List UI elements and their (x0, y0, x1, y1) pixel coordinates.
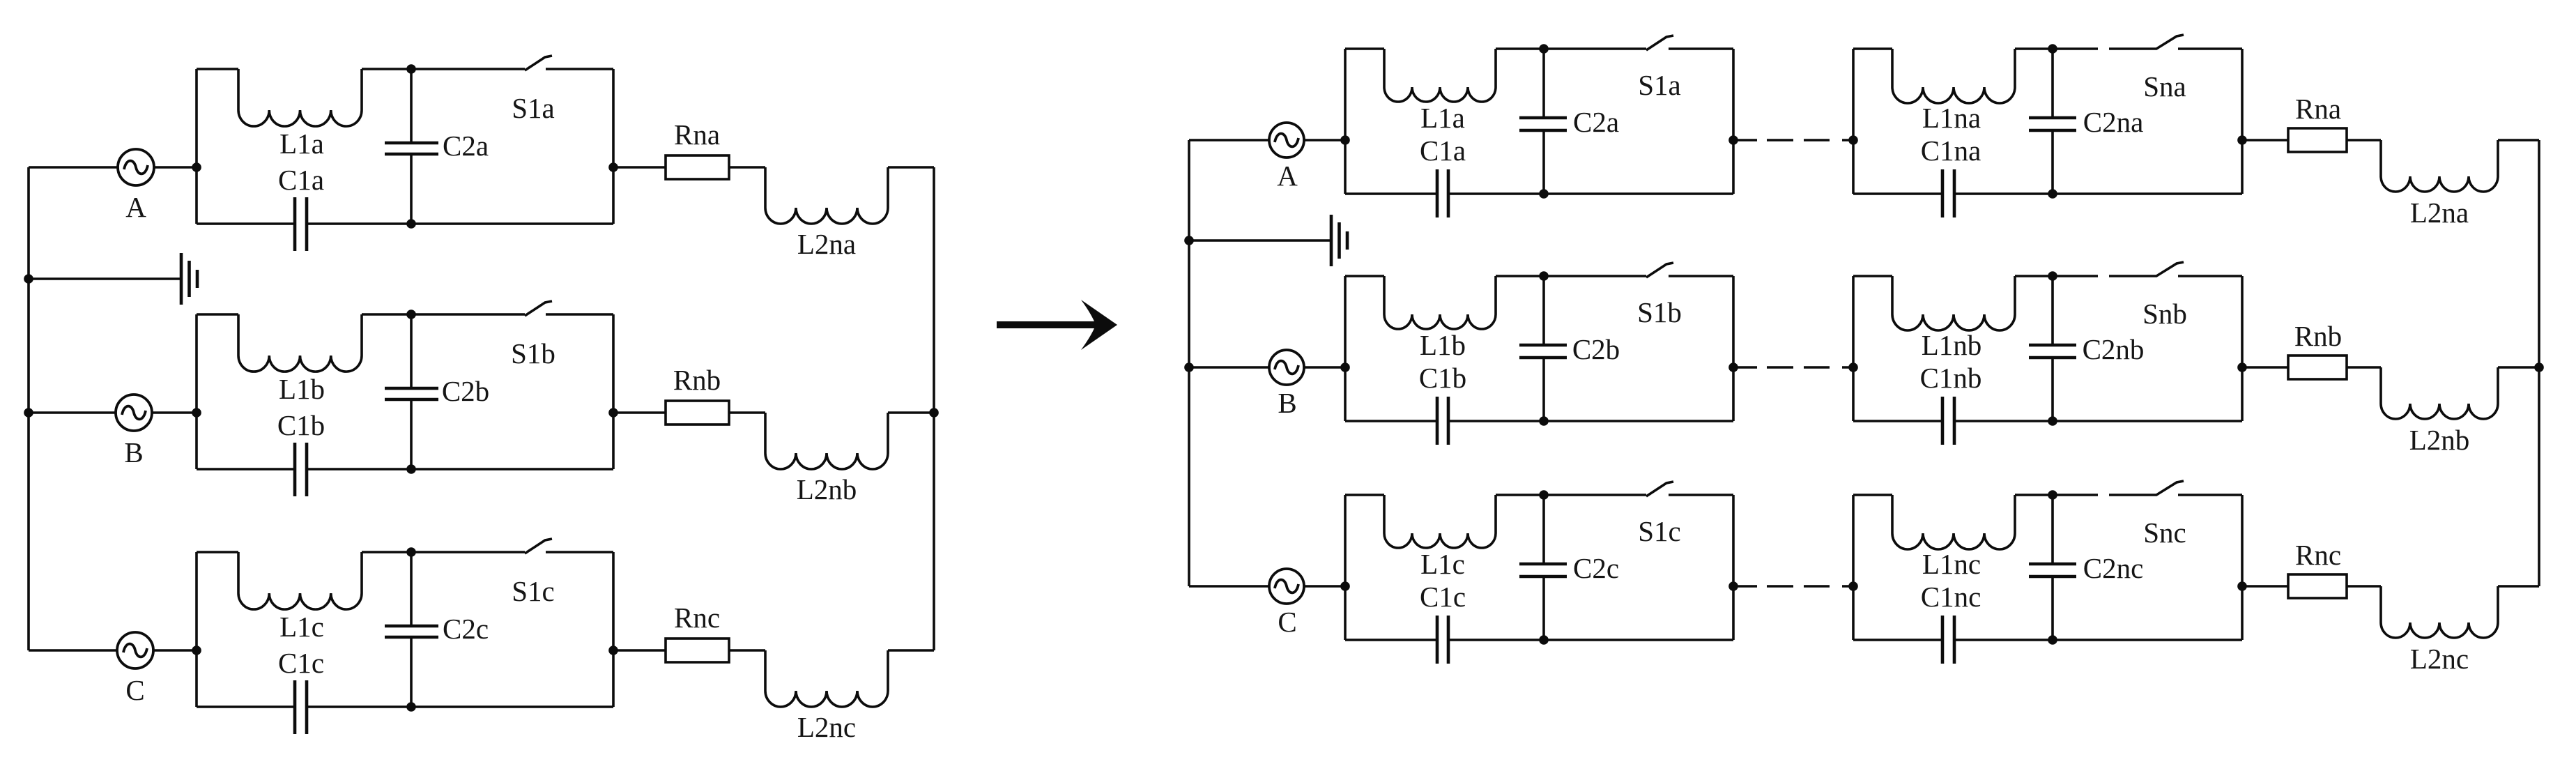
node cell1 out c (1728, 581, 1738, 591)
capacitor C2c (385, 552, 438, 707)
wire cell2 top rail mid b (2015, 275, 2098, 277)
svg-text:C1c: C1c (278, 647, 324, 679)
inductor L1nc (1892, 495, 2015, 549)
wire cell1 left b (1344, 276, 1347, 421)
inductor L1c (cell1) (1384, 495, 1496, 548)
node right-circuit right bus (2534, 362, 2544, 372)
node right bus (929, 408, 939, 418)
node C2b bottom right (1539, 416, 1549, 426)
wire cell2 top rail mid a (2015, 47, 2098, 50)
switch Snb (2109, 262, 2184, 276)
switch S1a blade (525, 56, 552, 70)
svg-text:C2b: C2b (1572, 333, 1620, 365)
wire inductor to bus b right (2498, 366, 2539, 369)
voltage source A right (1269, 123, 1304, 158)
voltage source A (118, 149, 154, 185)
node cell2 out b (2237, 362, 2247, 372)
node input c (192, 645, 201, 655)
svg-text:L2na: L2na (2410, 197, 2469, 229)
wire source to node C right (1304, 585, 1345, 588)
wire loop left c (195, 552, 198, 707)
wire to resistor b right (2242, 366, 2288, 369)
resistor Rna (right) (2288, 128, 2347, 152)
svg-text:C1nb: C1nb (1920, 362, 1982, 394)
capacitor C1na (1853, 169, 2242, 217)
inductor L1nb (1892, 276, 2015, 330)
svg-text:L2nb: L2nb (797, 473, 857, 505)
capacitor C2c (cell1) (1519, 495, 1567, 640)
svg-text:C2nc: C2nc (2083, 552, 2144, 584)
svg-text:C2na: C2na (2083, 106, 2144, 138)
inductor L2nc (right) (2381, 586, 2498, 638)
wire top rail mid c (362, 551, 525, 553)
voltage source B (116, 395, 152, 431)
node cell1 out b (1728, 362, 1738, 372)
wire resistor to inductor b right (2347, 366, 2381, 369)
svg-text:Rnb: Rnb (2294, 320, 2342, 352)
node C2b top (406, 310, 416, 319)
resistor Rnc (right) (2288, 574, 2347, 598)
wire loop left b (195, 314, 198, 469)
svg-text:C1a: C1a (1420, 135, 1466, 167)
wire loop right a (612, 69, 615, 224)
wire cell2 top rail right a (2178, 47, 2242, 50)
svg-text:C2c: C2c (443, 613, 489, 645)
svg-text:S1b: S1b (511, 337, 555, 369)
capacitor C2a (385, 69, 438, 224)
wire resistor to inductor a (729, 166, 765, 169)
node cell1 out a (1728, 135, 1738, 145)
inductor L1a (cell1) (1384, 49, 1496, 102)
wire cell1 top rail mid b (1496, 275, 1646, 277)
inductor L2na (765, 167, 888, 224)
svg-text:S1b: S1b (1637, 296, 1682, 328)
wire top rail left b (197, 313, 238, 316)
svg-text:C: C (125, 674, 144, 706)
wire to resistor a right (2242, 139, 2288, 142)
arrow (997, 300, 1117, 350)
inductor L2nb (765, 413, 888, 469)
capacitor C2b (cell1) (1519, 276, 1567, 421)
capacitor C1a (cell1) (1345, 169, 1733, 217)
wire top rail left a (197, 68, 238, 70)
wire source to node B (152, 411, 197, 414)
svg-text:C: C (1278, 606, 1296, 638)
svg-text:L2nc: L2nc (2410, 643, 2469, 675)
svg-text:L1nb: L1nb (1922, 329, 1982, 361)
inductor L1b (238, 314, 362, 372)
svg-text:S1c: S1c (512, 575, 555, 607)
resistor Rnc (666, 639, 729, 662)
wire top rail mid b (362, 313, 525, 316)
wire to resistor b (613, 411, 666, 414)
node C2na bottom (2048, 189, 2057, 199)
node C2b bottom (406, 464, 416, 474)
svg-text:S1c: S1c (1638, 515, 1681, 547)
svg-text:Rnc: Rnc (674, 602, 720, 634)
wire loop right c (612, 552, 615, 707)
inductor L2nc (765, 650, 888, 707)
wire cell1 top rail right b (1669, 275, 1733, 277)
switch S1b (cell1) blade (1646, 263, 1673, 277)
node output b (608, 408, 618, 418)
wire bus to source B right (1189, 366, 1269, 369)
node cell1 in a (1340, 135, 1350, 145)
wire inductor to bus c (888, 649, 934, 652)
node input b (192, 408, 201, 418)
wire left bus (27, 167, 30, 650)
wire bus to source C right (1189, 585, 1269, 588)
capacitor C1nb (1853, 397, 2242, 445)
wire cell1 top rail mid a (1496, 47, 1646, 50)
svg-text:C1na: C1na (1921, 135, 1981, 167)
svg-text:L2na: L2na (797, 228, 856, 260)
capacitor C2nb (2029, 276, 2076, 421)
wire source to node A (154, 166, 197, 169)
resistor Rnb (right) (2288, 356, 2347, 379)
svg-text:A: A (125, 191, 146, 223)
switch Sna (2109, 35, 2184, 49)
wire loop left a (195, 69, 198, 224)
wire inductor to bus c right (2498, 585, 2539, 588)
svg-text:C1a: C1a (278, 164, 324, 196)
wire right bus (933, 167, 935, 650)
svg-text:Rna: Rna (2295, 93, 2341, 125)
node cell2 out c (2237, 581, 2247, 591)
svg-text:L1na: L1na (1922, 102, 1981, 134)
wire dashed continuation c (1737, 585, 1854, 588)
svg-text:Rnb: Rnb (673, 364, 721, 396)
switch Snc (2109, 481, 2184, 495)
wire cell1 top rail left c (1345, 494, 1384, 496)
svg-text:C2a: C2a (1573, 106, 1619, 138)
node C2c top (406, 547, 416, 557)
wire cell1 top rail right a (1669, 47, 1733, 50)
node C2b top right (1539, 271, 1549, 281)
wire to resistor c right (2242, 585, 2288, 588)
wire resistor to inductor a right (2347, 139, 2381, 142)
wire inductor to bus b (888, 411, 934, 414)
node C2na top (2048, 44, 2057, 54)
wire bus to source A (29, 166, 118, 169)
capacitor C2a (cell1) (1519, 49, 1567, 194)
svg-text:A: A (1277, 160, 1298, 192)
inductor L1a (238, 69, 362, 126)
svg-text:Snb: Snb (2142, 298, 2187, 330)
node C2a top right (1539, 44, 1549, 54)
inductor L1b (cell1) (1384, 276, 1496, 329)
wire source to node C (153, 649, 197, 652)
wire cell2 top rail right b (2178, 275, 2242, 277)
svg-text:L1c: L1c (1420, 548, 1465, 580)
svg-text:L2nc: L2nc (797, 711, 856, 743)
capacitor C1b (cell1) (1345, 397, 1733, 445)
capacitor C2nc (2029, 495, 2076, 640)
wire right-circuit left bus (1188, 140, 1190, 586)
wire cell1 left c (1344, 495, 1347, 640)
wire cell1 left a (1344, 49, 1347, 194)
capacitor C1nc (1853, 616, 2242, 664)
wire top rail mid a (362, 68, 525, 70)
wire cell2 left a (1852, 49, 1855, 194)
voltage source C (117, 632, 153, 668)
wire cell2 left b (1852, 276, 1855, 421)
wire cell1 top rail right c (1669, 494, 1733, 496)
node ground tie right (1184, 236, 1194, 245)
wire cell1 top rail left b (1345, 275, 1384, 277)
svg-text:L1b: L1b (1420, 329, 1466, 361)
svg-text:Rnc: Rnc (2295, 539, 2341, 571)
svg-text:C1nc: C1nc (1921, 581, 1981, 613)
ground right (1331, 215, 1347, 266)
inductor L2na (right) (2381, 140, 2498, 192)
node C2a bottom (406, 219, 416, 229)
inductor L1na (1892, 49, 2015, 103)
wire cell2 top rail left c (1853, 494, 1892, 496)
svg-text:C1b: C1b (1419, 362, 1466, 394)
svg-text:C2b: C2b (442, 375, 489, 407)
svg-text:C2nb: C2nb (2083, 333, 2145, 365)
svg-text:L1a: L1a (279, 128, 324, 160)
wire cell2 top rail mid c (2015, 494, 2098, 496)
wire to resistor c (613, 649, 666, 652)
svg-text:Sna: Sna (2143, 70, 2186, 102)
capacitor C2na (2029, 49, 2076, 194)
voltage source B right (1269, 350, 1304, 385)
node bus phase B right (1184, 362, 1194, 372)
svg-text:Rna: Rna (674, 119, 720, 151)
node cell2 out a (2237, 135, 2247, 145)
node C2c bottom (406, 702, 416, 712)
svg-text:L1a: L1a (1420, 102, 1465, 134)
node input a (192, 162, 201, 172)
capacitor C1a (197, 197, 613, 251)
svg-text:C2c: C2c (1573, 552, 1619, 584)
wire cell1 top rail left a (1345, 47, 1384, 50)
wire to ground (29, 277, 180, 280)
svg-text:C2a: C2a (443, 130, 489, 162)
node C2nc bottom (2048, 635, 2057, 645)
inductor L1c (238, 552, 362, 609)
node C2nb top (2048, 271, 2057, 281)
wire cell1 right c (1732, 495, 1735, 640)
capacitor C1b (197, 443, 613, 496)
wire resistor to inductor b (729, 411, 765, 414)
svg-text:L1c: L1c (279, 611, 324, 643)
node C2nc top (2048, 490, 2057, 500)
node cell2 in c (1848, 581, 1858, 591)
node C2a top (406, 64, 416, 74)
resistor Rna (666, 155, 729, 179)
wire cell2 top rail left b (1853, 275, 1892, 277)
svg-text:L1b: L1b (279, 373, 325, 405)
node C2nb bottom (2048, 416, 2057, 426)
node C2c bottom right (1539, 635, 1549, 645)
wire cell2 top rail left a (1853, 47, 1892, 50)
wire cell2 left c (1852, 495, 1855, 640)
wire resistor to inductor c right (2347, 585, 2381, 588)
svg-text:L2nb: L2nb (2409, 424, 2470, 456)
node cell1 in b (1340, 362, 1350, 372)
wire right-circuit right bus (2538, 140, 2540, 586)
wire top rail right b (546, 313, 613, 316)
switch S1a (cell1) blade (1646, 36, 1673, 50)
svg-text:B: B (1278, 387, 1296, 419)
wire dashed continuation b (1737, 366, 1854, 369)
svg-text:S1a: S1a (512, 92, 555, 124)
wire cell2 right c (2241, 495, 2244, 640)
wire loop right b (612, 314, 615, 469)
wire source to node A right (1304, 139, 1345, 142)
node output c (608, 645, 618, 655)
wire to resistor a (613, 166, 666, 169)
node ground tie (24, 274, 33, 284)
switch S1b blade (525, 301, 552, 316)
svg-text:B: B (124, 436, 143, 468)
wire cell2 right b (2241, 276, 2244, 421)
svg-text:C1c: C1c (1420, 581, 1466, 613)
wire top rail left c (197, 551, 238, 553)
svg-text:L1nc: L1nc (1922, 548, 1981, 580)
wire inductor to bus a right (2498, 139, 2539, 142)
wire cell1 right a (1732, 49, 1735, 194)
wire inductor to bus a (888, 166, 934, 169)
node C2c top right (1539, 490, 1549, 500)
svg-text:C1b: C1b (277, 409, 325, 441)
wire resistor to inductor c (729, 649, 765, 652)
wire to ground right (1189, 239, 1330, 242)
node output a (608, 162, 618, 172)
wire dashed continuation a (1737, 139, 1854, 142)
node C2a bottom right (1539, 189, 1549, 199)
node bus phase B (24, 408, 33, 418)
wire bus to source C (29, 649, 117, 652)
wire cell2 right a (2241, 49, 2244, 194)
capacitor C1c (cell1) (1345, 616, 1733, 664)
node cell1 in c (1340, 581, 1350, 591)
voltage source C right (1269, 569, 1304, 604)
switch S1c blade (525, 539, 552, 553)
switch S1c (cell1) blade (1646, 482, 1673, 496)
node cell2 in b (1848, 362, 1858, 372)
inductor L2nb (right) (2381, 367, 2498, 419)
capacitor C2b (385, 314, 438, 469)
wire cell1 right b (1732, 276, 1735, 421)
capacitor C1c (197, 680, 613, 734)
wire top rail right a (546, 68, 613, 70)
wire cell1 top rail mid c (1496, 494, 1646, 496)
wire top rail right c (546, 551, 613, 553)
ground (181, 253, 197, 305)
wire bus to source B (29, 411, 116, 414)
wire cell2 top rail right c (2178, 494, 2242, 496)
wire source to node B right (1304, 366, 1345, 369)
svg-text:Snc: Snc (2143, 517, 2186, 549)
svg-text:S1a: S1a (1638, 69, 1681, 101)
node cell2 in a (1848, 135, 1858, 145)
wire bus to source A right (1189, 139, 1269, 142)
resistor Rnb (666, 401, 729, 425)
